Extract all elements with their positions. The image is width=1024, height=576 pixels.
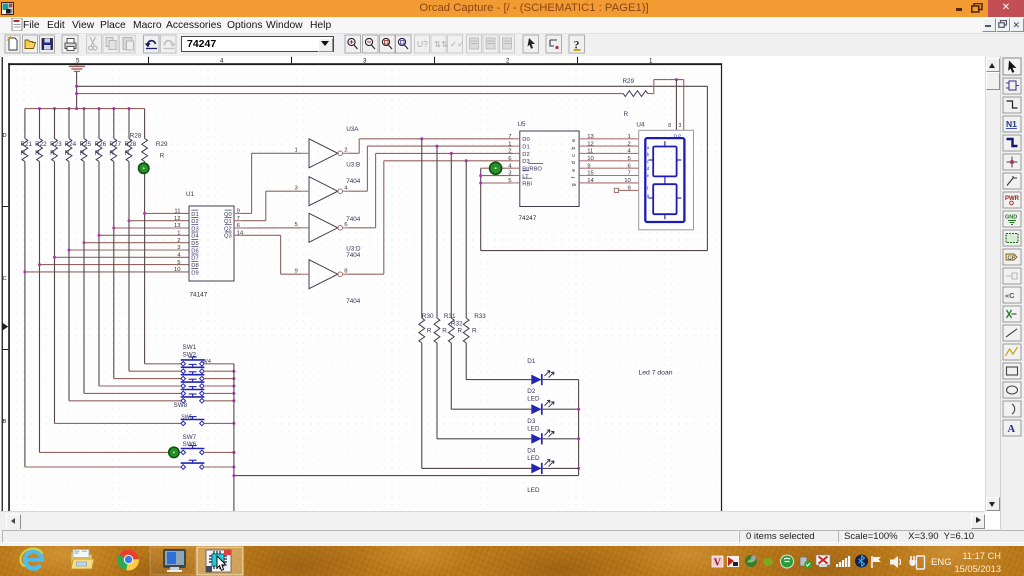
junction LED common (577, 467, 580, 470)
wire column R28 down (128, 162, 130, 372)
wire column R25 down (83, 162, 85, 394)
wire resistor bank rail (25, 108, 145, 110)
help (569, 35, 585, 53)
wire tap R25 to U1 (84, 242, 189, 244)
folder icon (71, 550, 94, 570)
wire U5 to U4 segment 2 (586, 145, 639, 147)
copy (grey) (106, 38, 116, 50)
junction SW common (232, 392, 235, 395)
wire SW row 3 to common (204, 378, 234, 380)
U5 pin 3 LT (513, 175, 520, 177)
junction rail (83, 107, 86, 110)
wire tap R24 to U1 (69, 249, 189, 251)
svg-text:V: V (714, 558, 722, 569)
U5 pin 7 D0 (513, 138, 520, 140)
junction SW common (232, 370, 235, 373)
switch SW row 5 (181, 387, 205, 396)
display U4 blue frame (645, 138, 684, 222)
inverter U3A triangle (309, 139, 338, 168)
U5 output pin 10 (579, 160, 586, 162)
wire U5 to U4 segment 5 (586, 160, 639, 162)
print (62, 35, 78, 53)
wire tap R26 to U1 (99, 234, 189, 236)
ground symbol (76, 65, 78, 66)
redo grey (161, 35, 177, 53)
ruler section ticks (148, 57, 150, 63)
U5 output pin 14 (579, 182, 586, 184)
DRC marker green circle near R28 (139, 163, 149, 173)
junction LED common (577, 437, 580, 440)
chrome icon (117, 550, 139, 571)
wire R26 to switch row (99, 385, 181, 387)
junction SW common (232, 377, 235, 380)
IE icon (18, 546, 44, 569)
junction column R28 at U1 tap (128, 219, 131, 222)
U5 pin 4 BI/RBO (513, 167, 520, 169)
wire column R27 down (113, 162, 115, 379)
wire R29 to U4 common (648, 93, 654, 95)
U5 output pin 13 (579, 138, 586, 140)
wire U4 pin3 vertical (683, 80, 685, 131)
wire U5 to U4 segment 6 (586, 167, 639, 169)
wire R31 to LED row (437, 438, 531, 440)
display U4 upper segment square (653, 147, 676, 177)
U5 output pin 15 (579, 175, 586, 177)
wire U5 to U4 segment 7 (586, 175, 639, 177)
resistor R24 (68, 109, 70, 139)
U1 output pin 6 Q2 (234, 227, 241, 229)
junction SW common (232, 422, 235, 425)
wire R24 to switch row (69, 400, 181, 402)
wire R23 to switch row (55, 422, 182, 424)
junction column R25 at U1 tap (83, 241, 86, 244)
svg-text:ENG: ENG (931, 557, 952, 568)
wire R25 to switch row (84, 392, 181, 394)
LED D3 (531, 434, 541, 444)
status bar (0, 529, 1024, 544)
wire U3A output to U5 D0 (349, 152, 360, 154)
U5 output pin 11 (579, 152, 586, 154)
junction SW common (232, 399, 235, 402)
junction rail (68, 107, 71, 110)
wire U5 BI horizontal (481, 167, 514, 169)
wire R21 to switch row (25, 466, 181, 468)
undo (144, 35, 160, 53)
taskbar (0, 546, 1024, 576)
resistor R25 (83, 109, 85, 139)
junction rail (98, 107, 101, 110)
page border left inner line (8, 63, 10, 511)
junction LED common (577, 408, 580, 411)
junction rail (38, 107, 41, 110)
wire LED common vertical (578, 380, 580, 476)
switch SW row 3 (181, 372, 205, 381)
wire SW row 7 to common (204, 422, 234, 424)
wire ground stem (76, 72, 78, 109)
junction column R21 at U1 tap (23, 270, 26, 273)
wire switch common to LED common (234, 475, 579, 477)
left margin section ticks (2, 206, 9, 208)
IC U1 74147 body (189, 206, 234, 281)
junction ground-B (75, 92, 78, 95)
wire U1 pin14 to U3D input (241, 234, 281, 236)
wire U5 RBI horizontal (481, 182, 514, 184)
wire U1 pin9 to U3A input (241, 212, 252, 214)
LED D1 (531, 375, 541, 385)
wire LED D4 cathode (543, 467, 579, 469)
U5 overbar BI/RBO (528, 162, 543, 164)
resistor R32 (450, 153, 452, 318)
wire net A bottom return (481, 250, 708, 252)
grey button borders (87, 35, 102, 53)
resistor R30 (421, 139, 423, 318)
greyed group (415, 35, 515, 53)
wire column R28b down (144, 162, 146, 364)
wire U1 pin6 to U3C input (241, 227, 302, 229)
inverter U3C triangle (309, 213, 338, 242)
wire net A top horizontal (77, 85, 708, 87)
wire R22 to switch row (40, 451, 182, 453)
display U4 inner pin letters (647, 145, 650, 198)
wire U5 to U4 segment 10 (586, 182, 639, 184)
junction column R22 at U1 tap (38, 263, 41, 266)
resistor R28b (144, 109, 146, 139)
wire U5 LT horizontal (481, 175, 514, 177)
switch SW row 6 (181, 394, 205, 403)
wire SW row 5 to common (204, 392, 234, 394)
DRC marker green circle at U5 BI (490, 162, 502, 174)
cut (grey) (89, 37, 98, 50)
resistor R21 (24, 109, 26, 139)
junction SW common bottom (232, 474, 235, 477)
wire SW row 6 to common (204, 400, 234, 402)
left margin section marker (2, 323, 8, 331)
wire column R21 down (24, 162, 26, 468)
pointer btn (523, 35, 539, 53)
IC U5 74247 body (520, 131, 579, 207)
save (40, 35, 55, 53)
display U4 segment ticks (649, 141, 682, 219)
wire column R24 down (68, 162, 70, 401)
active app slot highlight (197, 547, 243, 575)
resistor R33 (465, 161, 467, 318)
U1 output pin 7 Q1 (234, 220, 241, 222)
title bar (0, 0, 1024, 17)
wire SW row 2 to common (204, 370, 234, 372)
open (23, 35, 38, 53)
U1 output pin 9 Q0 (234, 212, 241, 214)
U5 overbar RBI (522, 177, 532, 179)
wire tap R22 to U1 (40, 264, 190, 266)
scrollbars and palette (985, 56, 1001, 511)
switch SW row 2 (181, 364, 205, 373)
U5 pin 2 D2 (513, 152, 520, 154)
wire tap R27 to U1 (114, 227, 189, 229)
tray icons (712, 556, 723, 569)
resistor R22 (39, 109, 41, 139)
wire R33 to LED row (466, 379, 531, 381)
schematic canvas (1, 56, 985, 511)
switch SW row 9 (181, 460, 205, 469)
wire R30 to LED row (422, 467, 532, 469)
U5 pin 5 RBI (513, 182, 520, 184)
junction U5 LT tie (479, 174, 482, 177)
wire LED D2 cathode (543, 408, 579, 410)
resistor R27 (113, 109, 115, 139)
U5 pin 6 D3 (513, 160, 520, 162)
resistor R23 (54, 109, 56, 139)
wire R27 to switch row (114, 378, 182, 380)
junction rail (53, 107, 56, 110)
DRC marker green circle near SW7 (169, 447, 179, 457)
display U4 lower segment square (653, 184, 676, 214)
junction SW common (232, 466, 235, 469)
wire SW row 4 to common (204, 385, 234, 387)
junction column R28b at U1 tap (143, 212, 146, 215)
U1 output pin 14 Q3 (234, 234, 241, 236)
wire U4 pin8 vertical (675, 80, 677, 131)
page border top ruler line (8, 63, 721, 65)
wire U1 pin7 to U3B input (241, 220, 266, 222)
wire tap R23 to U1 (55, 256, 190, 258)
wire U5 to U4 segment 4 (586, 152, 639, 154)
monitor app icon (163, 549, 186, 572)
wire column R26 down (98, 162, 100, 387)
toolbar (0, 34, 1024, 57)
page border left outer line (2, 57, 3, 511)
wire SW row 9 to common (204, 466, 234, 468)
switch SW row 7 (181, 417, 205, 426)
U5 output pin 12 (579, 145, 586, 147)
paste (grey) (123, 38, 134, 51)
wire R28 to switch row (129, 370, 181, 372)
wire LED D3 cathode (543, 438, 579, 440)
LED D4 (531, 463, 541, 473)
wire U3B output to U5 D1 (349, 190, 368, 192)
LED D2 (531, 404, 541, 414)
wire tap R28 to U1 (129, 220, 189, 222)
wire R28b to switch row (145, 363, 182, 365)
inverter U3B triangle (309, 177, 338, 206)
combo box (181, 36, 334, 52)
resistor R28 (128, 109, 130, 139)
junction R29 net (675, 78, 678, 81)
junction column R23 at U1 tap (53, 256, 56, 259)
wire net A left vertical to U5 BI (480, 168, 482, 250)
junction column R27 at U1 tap (112, 227, 115, 230)
resistor R31 (436, 146, 438, 318)
wire R32 to LED row (451, 408, 531, 410)
inverter U3D triangle (309, 260, 338, 289)
wire net B horizontal (77, 93, 624, 95)
junction rail (112, 107, 115, 110)
U4 pin 9 stub with no-connect square (614, 188, 618, 192)
display U4 outer body (639, 130, 694, 230)
junction R30 top (420, 137, 423, 140)
junction R31 top (436, 145, 439, 148)
wire column R23 down (54, 162, 56, 424)
resistor R29 (623, 91, 648, 97)
wire SW row 8 to common (204, 451, 234, 453)
wire net A right vertical (706, 86, 708, 250)
wire column R22 down (39, 162, 41, 453)
junction rail (75, 107, 78, 110)
zoom buttons (345, 35, 411, 53)
U5 output pin 9 (579, 167, 586, 169)
orcad app icon (active) (206, 550, 231, 572)
junction ground-A (75, 85, 78, 88)
wire U5 to U4 segment 1 (586, 138, 639, 140)
switch SW row 1 (181, 357, 205, 366)
junction SW common (232, 451, 235, 454)
resistor R26 (98, 109, 100, 139)
wire U3C output to U5 D2 (349, 227, 376, 229)
wire U3D output to U5 D3 (349, 273, 384, 275)
U5 pin 1 D1 (513, 145, 520, 147)
wire switch common vertical (233, 364, 235, 512)
wire SW row 1 to common (204, 363, 234, 365)
junction SW common (232, 385, 235, 388)
wire tap R21 to U1 (25, 271, 189, 273)
junction R32 top (450, 152, 453, 155)
junction rail (128, 107, 131, 110)
wire tap R28b to U1 (145, 212, 189, 214)
switch SW row 4 (181, 379, 205, 388)
junction column R26 at U1 tap (98, 234, 101, 237)
page border right line (721, 63, 722, 511)
junction U5 RBI tie (479, 182, 482, 185)
new (5, 35, 20, 53)
U5 overbar LT (522, 170, 529, 172)
menu bar (0, 17, 1024, 34)
switch SW row 8 (181, 446, 205, 455)
junction R33 top (465, 159, 468, 162)
wire LED D1 cathode (543, 379, 579, 381)
junction column R24 at U1 tap (68, 249, 71, 252)
